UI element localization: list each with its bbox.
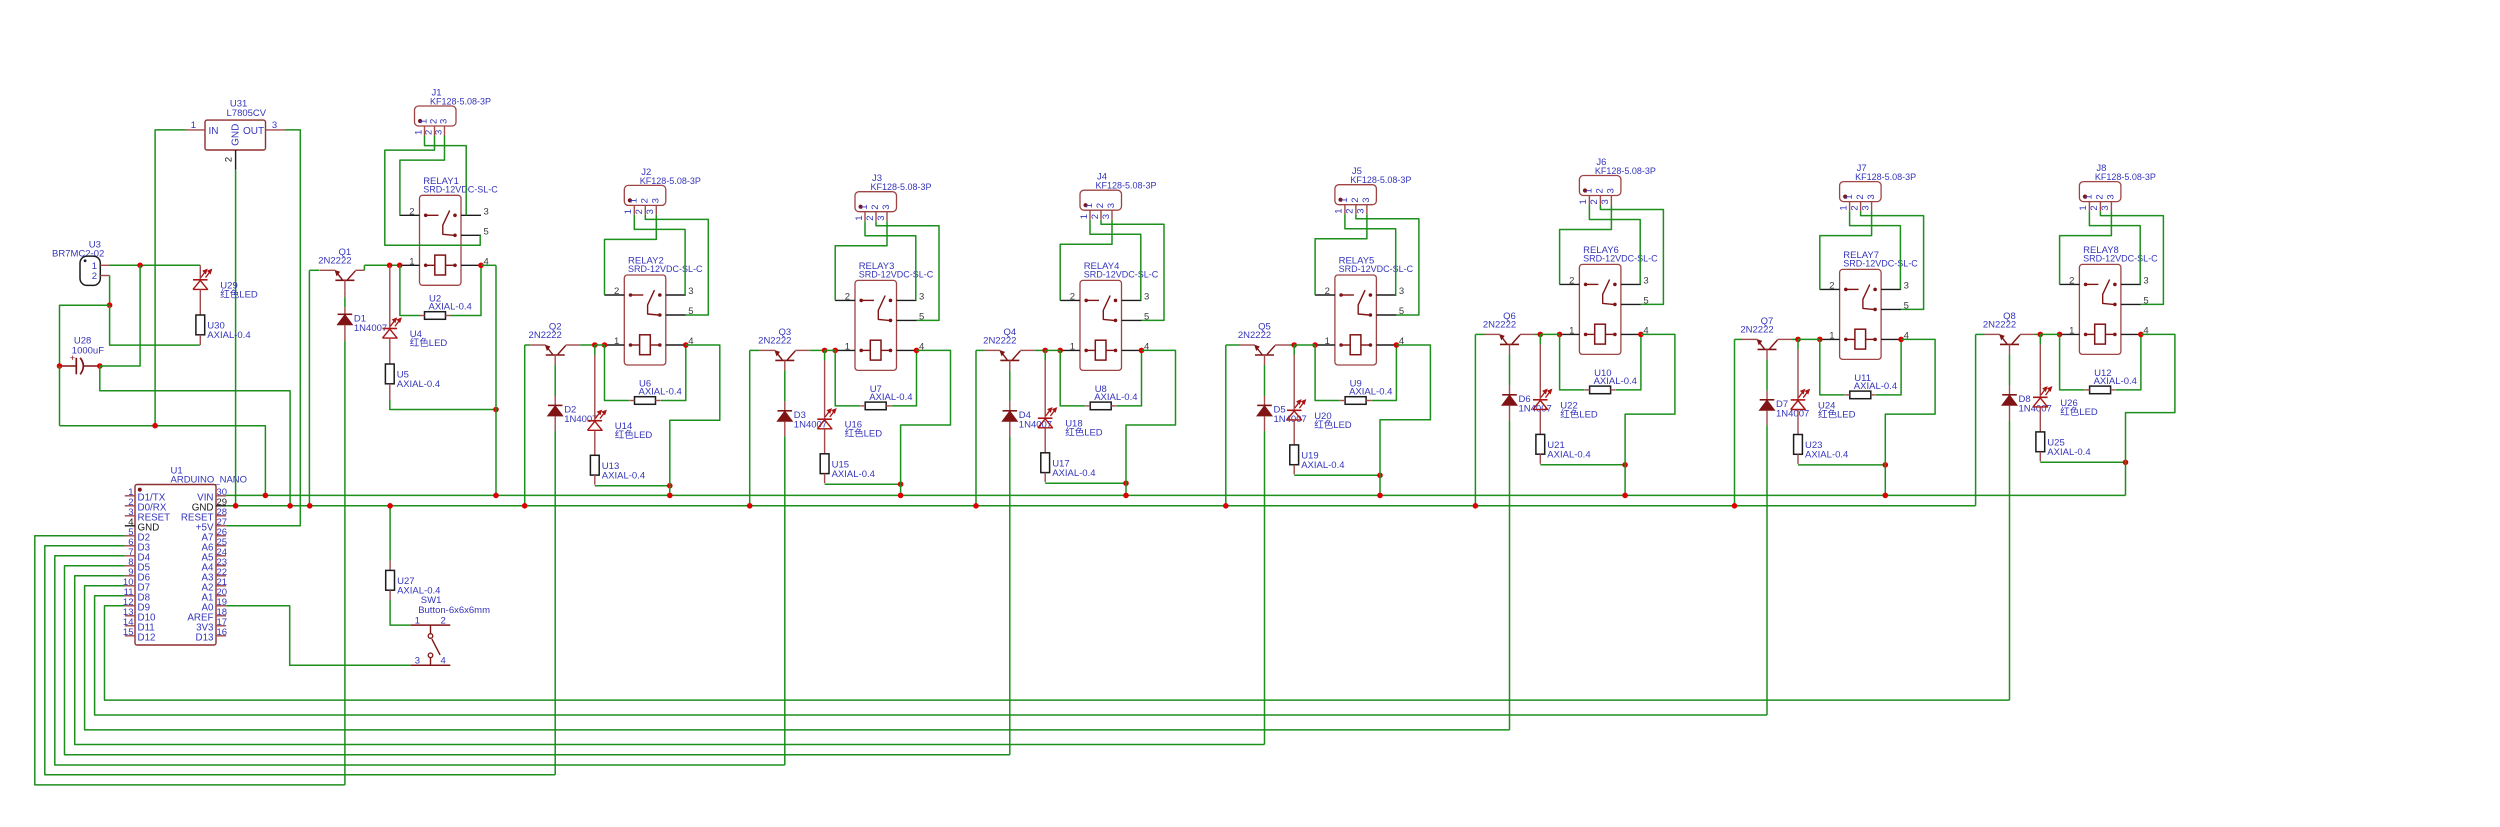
wire LED U26 chain — [2039, 334, 2041, 344]
wire node down to U30 bottom — [110, 305, 200, 345]
transistor Q8 2N2222 — [1983, 311, 2035, 354]
wire Q7 emitter to GND rail — [1735, 338, 1743, 340]
svg-text:KF128-5.08-3P: KF128-5.08-3P — [430, 97, 491, 107]
svg-text:1: 1 — [191, 120, 196, 131]
connector U3 BR7MC2-02 — [52, 240, 110, 286]
wire D4 to bus — [1009, 421, 1011, 436]
svg-text:IN: IN — [209, 126, 219, 137]
svg-text:AXIAL-0.4: AXIAL-0.4 — [832, 469, 875, 480]
junction RELAY4 pin4 — [1139, 348, 1145, 354]
junction RELAY4 pin1 stub — [1057, 348, 1063, 354]
svg-text:AXIAL-0.4: AXIAL-0.4 — [1805, 450, 1848, 461]
wire Q7 collector to LED node — [1792, 338, 1798, 340]
transistor Q1 2N2222 — [318, 247, 364, 290]
junction GND rail U28 branch — [287, 503, 293, 509]
svg-text:3: 3 — [1643, 275, 1648, 286]
wire D7 net: Arduino pin to Q6 base — [85, 586, 1510, 730]
wire J2 pin2 to RELAY2 pin5 — [645, 215, 708, 315]
svg-text:2N2222: 2N2222 — [1983, 320, 2016, 331]
svg-text:1N4007: 1N4007 — [354, 323, 387, 334]
wire U31 OUT to +5V vertical — [226, 130, 300, 526]
resistor U2 AXIAL-0.4 — [420, 294, 472, 320]
connector J7 KF128-5.08-3P — [1838, 163, 1916, 211]
wire GND rail — [226, 505, 1976, 507]
wire node down to +12V rail — [495, 410, 497, 496]
wire U17 bottom to node — [1045, 482, 1126, 484]
wire RELAY8 pin4 to +12V — [2126, 334, 2175, 462]
svg-text:2N2222: 2N2222 — [758, 336, 791, 347]
LED U14 red — [588, 410, 653, 441]
junction U28 right — [97, 363, 103, 369]
wire U10 right to pin4 — [1616, 334, 1641, 390]
resistor U27 AXIAL-0.4 — [386, 570, 441, 596]
wire U9 right to pin4 — [1371, 345, 1396, 401]
svg-text:2: 2 — [92, 271, 97, 282]
junction RELAY1 pin4 — [478, 263, 484, 269]
svg-text:AXIAL-0.4: AXIAL-0.4 — [397, 379, 440, 390]
resistor U25 AXIAL-0.4 — [2036, 432, 2091, 458]
resistor U30 AXIAL-0.4 — [196, 315, 251, 341]
wire J3 pin3 to RELAY3 pin2 — [835, 221, 887, 300]
svg-text:3: 3 — [1860, 205, 1871, 210]
wire Q4 emitter to GND rail — [976, 349, 985, 351]
wire J1 pin2 to RELAY1 pin5 — [385, 136, 480, 246]
junction VIN rail 12V feed — [263, 493, 269, 499]
resistor U11 AXIAL-0.4 — [1845, 373, 1897, 399]
junction RELAY3 chain/pin4 node — [898, 481, 904, 487]
svg-text:3: 3 — [1904, 280, 1909, 291]
wire U11 right to pin4 — [1876, 339, 1901, 395]
svg-text:3: 3 — [484, 206, 489, 217]
wire RELAY7 pin4 to +12V — [1885, 339, 1935, 465]
svg-text:红色LED: 红色LED — [1065, 427, 1103, 439]
svg-text:2: 2 — [2069, 275, 2074, 286]
svg-text:3: 3 — [651, 198, 662, 203]
svg-text:2: 2 — [1589, 199, 1600, 204]
resistor U15 AXIAL-0.4 — [820, 454, 875, 480]
svg-text:SRD-12VDC-SL-C: SRD-12VDC-SL-C — [1084, 270, 1159, 280]
svg-text:2: 2 — [1350, 197, 1361, 202]
svg-text:SRD-12VDC-SL-C: SRD-12VDC-SL-C — [1339, 264, 1414, 274]
svg-text:3: 3 — [1356, 208, 1367, 213]
svg-text:1: 1 — [1084, 203, 1095, 208]
LED U16 red — [817, 409, 882, 440]
svg-text:2: 2 — [845, 291, 850, 302]
wire U28 right to GND rail — [100, 366, 290, 506]
wire D7 to bus — [1766, 410, 1768, 425]
wire Q6 emitter to GND rail — [1475, 333, 1484, 335]
resistor U19 AXIAL-0.4 — [1290, 445, 1345, 471]
svg-text:2: 2 — [409, 206, 414, 217]
relay RELAY4 SRD-12VDC-SL-C — [1060, 261, 1159, 371]
wire U25 bottom to node — [2040, 461, 2125, 463]
wire U23 bottom to node — [1798, 464, 1885, 466]
svg-text:1: 1 — [1339, 197, 1350, 202]
svg-text:KF128-5.08-3P: KF128-5.08-3P — [640, 176, 701, 186]
wire Q2 emitter to GND rail — [525, 344, 531, 346]
wire U12 right to pin4 — [2116, 334, 2141, 390]
wire J4 pin1 to RELAY4 pin3 — [1090, 220, 1141, 301]
svg-text:1: 1 — [409, 256, 414, 267]
wire D3 net: Arduino pin to Q2 base — [45, 546, 555, 775]
wire node to RELAY8 pin1 — [2040, 333, 2059, 335]
svg-text:2: 2 — [1095, 203, 1106, 208]
resistor U8 AXIAL-0.4 — [1085, 384, 1137, 410]
svg-text:2: 2 — [1070, 291, 1075, 302]
junction U31 GND at rail — [233, 503, 239, 509]
wire RELAY4 node to +12V rail — [1125, 483, 1127, 495]
svg-text:+: + — [70, 353, 76, 364]
wire Q8 base down — [2009, 354, 2011, 385]
wire U5 bottom to pin4 drop — [390, 400, 496, 410]
wire D8 net: Arduino pin to Q7 base — [95, 596, 1767, 715]
wire node to RELAY2 pin1 — [595, 344, 605, 346]
wire J8 pin3 to RELAY8 pin2 — [2060, 211, 2112, 284]
junction RELAY4 pin1 LED branch node — [1042, 348, 1048, 354]
wire J8 pin2 to RELAY8 pin5 — [2100, 211, 2163, 304]
wire RELAY6 node to +12V rail — [1624, 465, 1626, 496]
junction RELAY7 chain/pin4 node — [1883, 462, 1889, 468]
switch SW1 Button-6x6x6mm — [411, 595, 490, 666]
svg-text:3: 3 — [439, 119, 450, 124]
relay RELAY8 SRD-12VDC-SL-C — [2059, 245, 2158, 355]
svg-text:3: 3 — [876, 215, 887, 220]
junction RELAY3 pin1 stub — [832, 348, 838, 354]
svg-text:1: 1 — [614, 336, 619, 347]
wire J2 pin3 to RELAY2 pin2 — [605, 215, 657, 295]
wire J1 pin1 to RELAY1 pin3 — [425, 136, 467, 216]
resistor U21 AXIAL-0.4 — [1536, 434, 1591, 460]
svg-text:2: 2 — [640, 198, 651, 203]
svg-text:3: 3 — [1606, 188, 1617, 193]
svg-text:KF128-5.08-3P: KF128-5.08-3P — [1595, 166, 1656, 176]
wire D6 to bus — [1509, 405, 1511, 420]
transistor Q4 2N2222 — [983, 327, 1035, 370]
LED U22 red — [1533, 389, 1598, 420]
wire D3 to bus — [784, 421, 786, 436]
svg-text:红色LED: 红色LED — [1818, 408, 1856, 420]
junction RELAY5 pin1 stub — [1312, 342, 1318, 348]
wire Q7 base down — [1766, 359, 1768, 390]
wire D2 net: Arduino pin to Q1 base — [35, 536, 345, 785]
svg-text:3: 3 — [433, 130, 444, 135]
svg-text:5: 5 — [484, 226, 489, 237]
junction U27 at GND rail — [387, 503, 393, 509]
wire Q3 base down — [784, 370, 786, 401]
svg-text:3: 3 — [645, 209, 656, 214]
svg-text:红色LED: 红色LED — [615, 429, 653, 441]
connector J1 KF128-5.08-3P — [413, 88, 491, 136]
svg-text:1: 1 — [415, 615, 420, 626]
svg-text:1: 1 — [1829, 330, 1834, 341]
wire U28 left to 12V line — [59, 366, 61, 426]
resistor U10 AXIAL-0.4 — [1585, 368, 1637, 394]
diode D4 1N4007 — [1003, 410, 1053, 431]
wire U19 bottom to node — [1294, 474, 1380, 476]
wire RELAY4 pin4 to +12V — [1126, 350, 1176, 483]
wire 12V line to Arduino VIN — [60, 426, 266, 496]
relay RELAY1 SRD-12VDC-SL-C — [400, 176, 499, 285]
connector J8 KF128-5.08-3P — [2078, 163, 2156, 211]
wire RELAY8 node to +12V rail — [2125, 462, 2127, 495]
svg-text:AXIAL-0.4: AXIAL-0.4 — [2047, 447, 2090, 458]
svg-text:红色LED: 红色LED — [2060, 406, 2098, 418]
diode D2 1N4007 — [548, 405, 598, 426]
wire U2 right to RELAY1 pin4 — [451, 265, 482, 315]
svg-text:1: 1 — [1578, 199, 1589, 204]
transistor Q7 2N2222 — [1740, 316, 1792, 359]
wire Q5 collector to LED node — [1290, 344, 1295, 346]
wire LED U16 chain — [824, 350, 826, 360]
wire J3 pin1 to RELAY3 pin3 — [865, 221, 916, 300]
wire J6 pin1 to RELAY6 pin3 — [1589, 205, 1640, 284]
svg-text:2N2222: 2N2222 — [1740, 325, 1773, 336]
svg-text:1: 1 — [1325, 336, 1330, 347]
svg-text:1: 1 — [1844, 194, 1855, 199]
wire Q5 emitter to GND rail — [1226, 344, 1240, 346]
resistor U6 AXIAL-0.4 — [630, 379, 682, 405]
junction RELAY1 pin1 LED branch — [387, 263, 393, 269]
svg-text:SRD-12VDC-SL-C: SRD-12VDC-SL-C — [423, 185, 498, 195]
wire U9 left to pin1 — [1315, 345, 1340, 401]
svg-text:2N2222: 2N2222 — [318, 256, 351, 267]
svg-text:2: 2 — [865, 215, 876, 220]
wire Q3 emitter to GND rail — [750, 349, 760, 351]
LED U29 red — [193, 269, 258, 300]
wire U3 pin1 wire down to U29 — [199, 265, 201, 280]
junction RELAY3 at +12V rail — [898, 493, 904, 499]
wire U31 GND to GND rail — [235, 170, 237, 506]
svg-text:BR7MC2-02: BR7MC2-02 — [52, 249, 104, 260]
wire J6 pin2 to RELAY6 pin5 — [1600, 205, 1663, 304]
resistor U23 AXIAL-0.4 — [1794, 435, 1849, 461]
svg-text:2N2222: 2N2222 — [1483, 320, 1516, 331]
svg-text:OUT: OUT — [243, 126, 264, 137]
junction chain/pin4 node — [493, 407, 499, 413]
connector J4 KF128-5.08-3P — [1079, 172, 1157, 220]
IC U31 L7805CV regulator — [186, 99, 285, 170]
svg-text:3: 3 — [1106, 203, 1117, 208]
svg-text:2: 2 — [870, 204, 881, 209]
resistor U7 AXIAL-0.4 — [860, 384, 912, 410]
wire RELAY5 pin4 to +12V — [1380, 345, 1430, 475]
svg-text:3: 3 — [1600, 199, 1611, 204]
wire D5 to bus — [1264, 416, 1266, 431]
svg-text:AXIAL-0.4: AXIAL-0.4 — [1052, 468, 1095, 479]
junction RELAY6 at +12V rail — [1622, 493, 1628, 499]
svg-text:3: 3 — [2143, 275, 2148, 286]
junction Q2 emitter at GND rail — [522, 503, 528, 509]
svg-text:SRD-12VDC-SL-C: SRD-12VDC-SL-C — [628, 264, 703, 274]
wire RELAY3 node to +12V rail — [900, 484, 902, 495]
wire J3 pin2 to RELAY3 pin5 — [876, 221, 939, 320]
wire Q1 collector to RELAY1 pin1 — [364, 264, 399, 266]
wire Q3 collector to LED node — [810, 349, 825, 351]
wire 12V input to U31 IN — [155, 130, 186, 426]
svg-text:2N2222: 2N2222 — [983, 336, 1016, 347]
wire node to RELAY7 pin1 — [1798, 338, 1820, 340]
wire U6 left to pin1 — [605, 345, 630, 401]
wire D9 net: Arduino pin to Q8 base — [105, 606, 2010, 700]
wire Q2 collector to LED node — [580, 344, 595, 346]
junction U3 pin2 node — [107, 302, 113, 308]
LED U20 red — [1287, 400, 1352, 431]
svg-text:2N2222: 2N2222 — [529, 330, 562, 341]
wire Q4 base down — [1009, 370, 1011, 401]
svg-text:2: 2 — [614, 286, 619, 297]
svg-text:D13: D13 — [196, 633, 215, 644]
svg-text:KF128-5.08-3P: KF128-5.08-3P — [2095, 172, 2156, 182]
junction Q1 emitter at GND rail — [307, 503, 313, 509]
junction Q5 emitter at GND rail — [1223, 503, 1229, 509]
svg-text:2: 2 — [1595, 188, 1606, 193]
wire RELAY6 pin4 to +12V — [1625, 334, 1675, 464]
junction RELAY3 pin1 LED branch node — [822, 348, 828, 354]
wire node to RELAY4 pin1 — [1045, 349, 1060, 351]
svg-text:SRD-12VDC-SL-C: SRD-12VDC-SL-C — [1843, 259, 1918, 269]
junction RELAY6 pin4 — [1638, 332, 1644, 338]
svg-text:SRD-12VDC-SL-C: SRD-12VDC-SL-C — [2083, 254, 2158, 264]
diode D1 1N4007 — [338, 314, 388, 335]
svg-text:1: 1 — [1569, 325, 1574, 336]
wire U3 pin2 down to node — [109, 276, 111, 306]
wire RELAY3 pin4 to +12V — [901, 350, 951, 484]
wire U11 left to pin1 — [1820, 339, 1845, 395]
wire LED U24 chain — [1797, 339, 1799, 349]
svg-text:3: 3 — [1866, 194, 1877, 199]
svg-text:1: 1 — [1334, 208, 1345, 213]
svg-text:2: 2 — [224, 157, 235, 162]
junction RELAY3 pin4 — [914, 348, 920, 354]
wire node to RELAY6 pin1 — [1540, 333, 1559, 335]
svg-text:15: 15 — [123, 627, 134, 638]
relay RELAY5 SRD-12VDC-SL-C — [1315, 256, 1414, 366]
diode D3 1N4007 — [778, 410, 828, 431]
svg-text:1: 1 — [623, 209, 634, 214]
wire U2 left to RELAY1 pin1 — [400, 265, 420, 315]
junction RELAY1 pin1 stub — [397, 263, 403, 269]
svg-text:红色LED: 红色LED — [1560, 408, 1598, 420]
wire Q1 base down — [344, 290, 346, 297]
junction RELAY2 pin4 — [683, 342, 689, 348]
junction RELAY8 pin1 LED branch node — [2038, 332, 2044, 338]
svg-text:1: 1 — [1070, 341, 1075, 352]
transistor Q5 2N2222 — [1238, 322, 1290, 365]
wire J7 pin1 to RELAY7 pin3 — [1850, 211, 1901, 289]
junction RELAY2 at +12V rail — [667, 493, 673, 499]
svg-text:16: 16 — [217, 627, 228, 638]
svg-text:SRD-12VDC-SL-C: SRD-12VDC-SL-C — [1583, 254, 1658, 264]
svg-text:GND: GND — [231, 124, 242, 146]
svg-text:1N4007: 1N4007 — [1776, 409, 1809, 420]
svg-text:KF128-5.08-3P: KF128-5.08-3P — [871, 182, 932, 192]
svg-text:1: 1 — [1838, 205, 1849, 210]
wire Q5 base down — [1264, 365, 1266, 396]
junction RELAY7 pin1 stub — [1817, 337, 1823, 343]
svg-text:3: 3 — [2106, 194, 2117, 199]
wire U28 right up to U3 pin1 net — [100, 265, 140, 366]
svg-text:3: 3 — [1399, 286, 1404, 297]
svg-text:2: 2 — [1325, 286, 1330, 297]
svg-text:1: 1 — [2069, 325, 2074, 336]
LED U24 red — [1791, 389, 1856, 420]
svg-text:AXIAL-0.4: AXIAL-0.4 — [1301, 460, 1344, 471]
wire U21 bottom to node — [1540, 464, 1625, 466]
wire J5 pin1 to RELAY5 pin3 — [1345, 214, 1396, 295]
wire J6 pin3 to RELAY6 pin2 — [1560, 205, 1612, 284]
wire LED U22 chain — [1539, 334, 1541, 344]
wire J4 pin2 to RELAY4 pin5 — [1101, 220, 1164, 321]
wire J5 pin2 to RELAY5 pin5 — [1356, 214, 1419, 315]
capacitor U28 1000uF polarized — [60, 336, 105, 375]
junction U3 pin1 / U28 — [137, 263, 143, 269]
resistor U12 AXIAL-0.4 — [2085, 368, 2137, 394]
svg-text:3: 3 — [415, 655, 420, 666]
svg-text:1: 1 — [1584, 188, 1595, 193]
junction RELAY8 chain/pin4 node — [2123, 460, 2129, 466]
svg-text:3: 3 — [1144, 291, 1149, 302]
wire LED U20 chain — [1293, 345, 1295, 355]
svg-text:SRD-12VDC-SL-C: SRD-12VDC-SL-C — [859, 270, 934, 280]
junction RELAY8 pin1 stub — [2057, 332, 2063, 338]
svg-text:1: 1 — [845, 341, 850, 352]
resistor U13 AXIAL-0.4 — [590, 455, 645, 481]
svg-text:KF128-5.08-3P: KF128-5.08-3P — [1096, 181, 1157, 191]
svg-text:L7805CV: L7805CV — [227, 108, 267, 119]
wire Q8 emitter to GND rail — [1976, 333, 1985, 335]
wire Q1 emitter to GND rail — [309, 269, 319, 271]
wire U8 left to pin1 — [1060, 350, 1085, 406]
LED U4 red — [383, 318, 448, 349]
wire RELAY5 node to +12V rail — [1379, 475, 1381, 495]
svg-text:2: 2 — [1090, 214, 1101, 219]
connector J2 KF128-5.08-3P — [623, 167, 701, 215]
junction RELAY6 pin1 LED branch node — [1538, 332, 1544, 338]
wire U10 left to pin1 — [1560, 334, 1585, 390]
svg-text:1: 1 — [629, 198, 640, 203]
junction RELAY4 chain/pin4 node — [1123, 480, 1129, 486]
svg-text:2: 2 — [1829, 280, 1834, 291]
svg-text:红色LED: 红色LED — [1314, 419, 1352, 431]
wire J7 pin3 to RELAY7 pin2 — [1820, 211, 1872, 289]
svg-text:3: 3 — [272, 120, 277, 131]
wire J5 pin3 to RELAY5 pin2 — [1315, 214, 1367, 295]
svg-text:4: 4 — [441, 655, 446, 666]
diode D6 1N4007 — [1502, 394, 1552, 415]
svg-text:红色LED: 红色LED — [410, 337, 448, 349]
svg-text:3: 3 — [688, 286, 693, 297]
relay RELAY3 SRD-12VDC-SL-C — [835, 261, 934, 371]
junction RELAY7 pin4 — [1898, 337, 1904, 343]
svg-text:3: 3 — [1101, 214, 1112, 219]
junction Q4 emitter at GND rail — [973, 503, 979, 509]
transistor Q3 2N2222 — [758, 327, 810, 370]
wire D1 to bus — [344, 325, 346, 341]
junction RELAY7 at +12V rail — [1883, 493, 1889, 499]
relay RELAY7 SRD-12VDC-SL-C — [1820, 250, 1919, 360]
svg-text:2: 2 — [1569, 275, 1574, 286]
wire Q8 collector to LED node — [2035, 333, 2041, 335]
junction at +12V rail — [493, 493, 499, 499]
wire +12V rail (VIN net) — [226, 494, 2125, 496]
junction RELAY6 pin1 stub — [1557, 332, 1563, 338]
svg-text:AXIAL-0.4: AXIAL-0.4 — [1547, 449, 1590, 460]
wire J1 pin3 to RELAY1 pin2 — [400, 136, 445, 216]
wire Q6 base down — [1509, 354, 1511, 385]
svg-text:1: 1 — [2078, 205, 2089, 210]
svg-text:2N2222: 2N2222 — [1238, 330, 1271, 341]
svg-text:2: 2 — [1855, 194, 1866, 199]
